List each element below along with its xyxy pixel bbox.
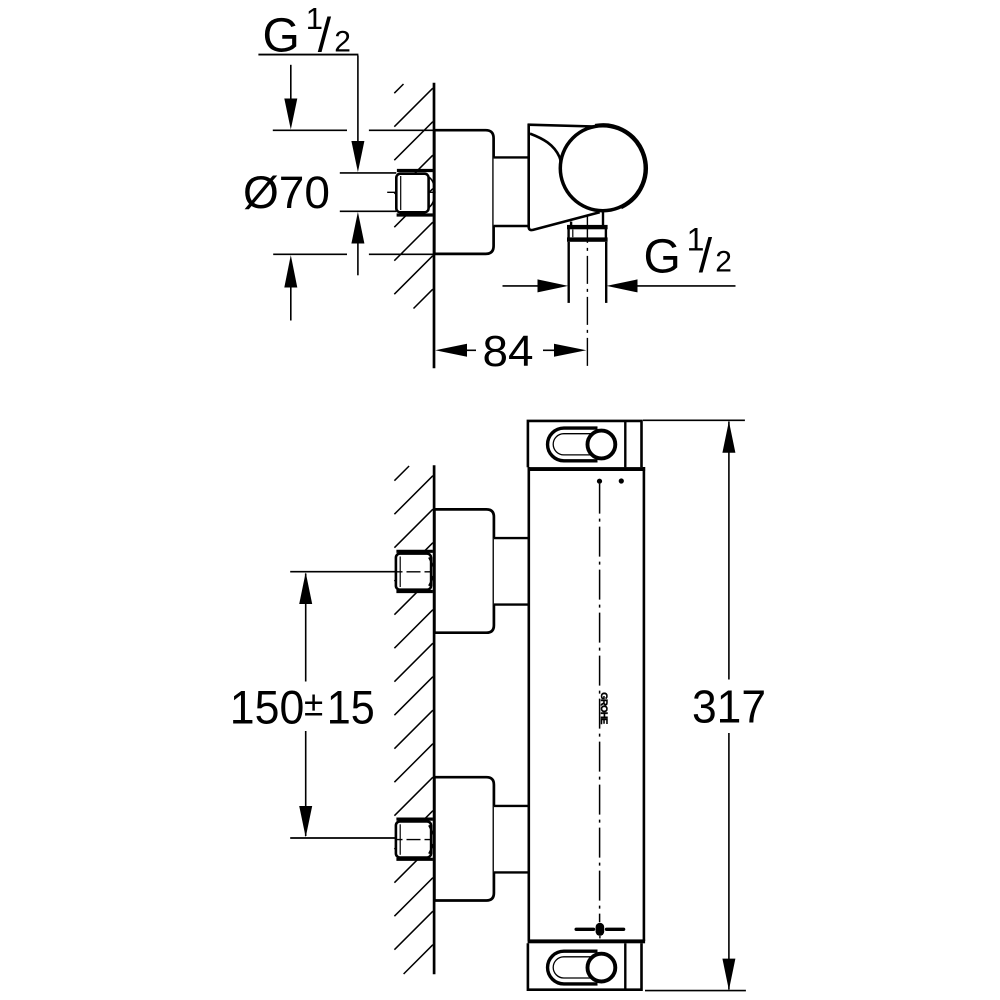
ext line 317 top (643, 419, 745, 421)
150 bottom arrow (299, 806, 312, 837)
upper union collars (396, 550, 433, 553)
upper escutcheon (front view) (434, 509, 494, 632)
svg-text:317: 317 (692, 681, 766, 733)
wall line (side view) (433, 83, 436, 369)
wall line (front view) (433, 465, 436, 974)
svg-text:Ø70: Ø70 (243, 167, 330, 218)
top cap housing (528, 421, 642, 467)
body right edge (643, 467, 646, 941)
top separator bar (528, 467, 646, 471)
body bottom slant edge (529, 212, 600, 230)
label underline (258, 54, 358, 56)
bottom cap housing (528, 943, 642, 989)
lower union collars (396, 817, 433, 820)
handle rim arc (595, 124, 647, 208)
wall union collar bottom (397, 213, 433, 216)
dim G1/2 pipe right arrow (607, 279, 638, 292)
svg-text:84: 84 (483, 327, 534, 376)
svg-text:2: 2 (715, 245, 732, 278)
wall hatching (side view) (394, 84, 433, 309)
317 bottom arrow (722, 959, 735, 991)
wall union centerline (horizontal) (387, 191, 434, 193)
lower union centerline (397, 839, 435, 841)
upper union centerline (397, 571, 435, 573)
wall escutcheon flange (side view) (434, 130, 493, 254)
upper neck (494, 538, 529, 605)
neck (side view) (494, 157, 529, 226)
outlet stub (570, 222, 572, 226)
upper nut taper (429, 558, 435, 586)
lower nut taper (429, 825, 435, 853)
outlet centerline (vertical) (586, 215, 588, 369)
outlet union nut (side view) (567, 225, 608, 229)
bottom knob circle (588, 954, 616, 982)
lower escutcheon (front view) (434, 777, 494, 900)
svg-text:GROHE: GROHE (598, 692, 609, 724)
shower pipe (568, 242, 570, 303)
safety stop marker (576, 928, 593, 931)
ext line upper union centerline (290, 571, 396, 573)
body left edge (527, 124, 530, 228)
extension line flange top (273, 129, 347, 131)
body left edge (527, 467, 530, 941)
top knob circle (588, 431, 616, 459)
lower neck (494, 806, 529, 873)
extension line flange bottom (273, 253, 347, 255)
dim line 317 (728, 422, 730, 680)
ext line lower union centerline (290, 837, 396, 839)
dim 84 left arrow (435, 344, 467, 357)
svg-text:150: 150 (230, 681, 304, 734)
nut top dim line (340, 172, 397, 174)
body centerline (599, 484, 601, 923)
thermostat body (side view) (529, 125, 640, 230)
dim 84 right arrow (543, 349, 554, 351)
dim G1/2 pipe left arrow (503, 285, 539, 287)
svg-text:/: / (699, 230, 713, 283)
dim G1/2 lower arrow (351, 212, 364, 244)
thermostat handle circle (side view) (560, 126, 645, 211)
dim D70 lower arrow (284, 255, 297, 287)
wall union collar top (397, 169, 433, 172)
150 top arrow (299, 572, 312, 604)
bottom separator bar (528, 939, 646, 943)
dim line 150 (305, 574, 307, 682)
317 top arrow (722, 421, 735, 453)
wall union nut (side view) (396, 174, 428, 213)
ext line 317 bottom (645, 990, 746, 992)
top knob slot inner (553, 434, 604, 455)
index dots (597, 479, 602, 484)
nut bottom dim line (340, 210, 397, 212)
dim D70 upper arrow (290, 65, 292, 100)
svg-text:±: ± (304, 685, 323, 724)
mixer body (front view) (528, 420, 645, 990)
wall hatching (front view) (394, 466, 433, 974)
top knob slot outer (548, 428, 598, 461)
nut taper (429, 177, 435, 208)
svg-text:G: G (644, 230, 681, 283)
lower union nut (396, 821, 431, 857)
body top edge (528, 125, 595, 127)
upper union nut (396, 554, 431, 590)
bottom knob slot inner (553, 957, 604, 978)
bottom knob slot outer (548, 951, 598, 984)
dim G1/2 leader line (357, 56, 359, 142)
svg-text:2: 2 (334, 25, 351, 58)
body concave curve (530, 134, 561, 167)
svg-text:15: 15 (327, 681, 375, 734)
